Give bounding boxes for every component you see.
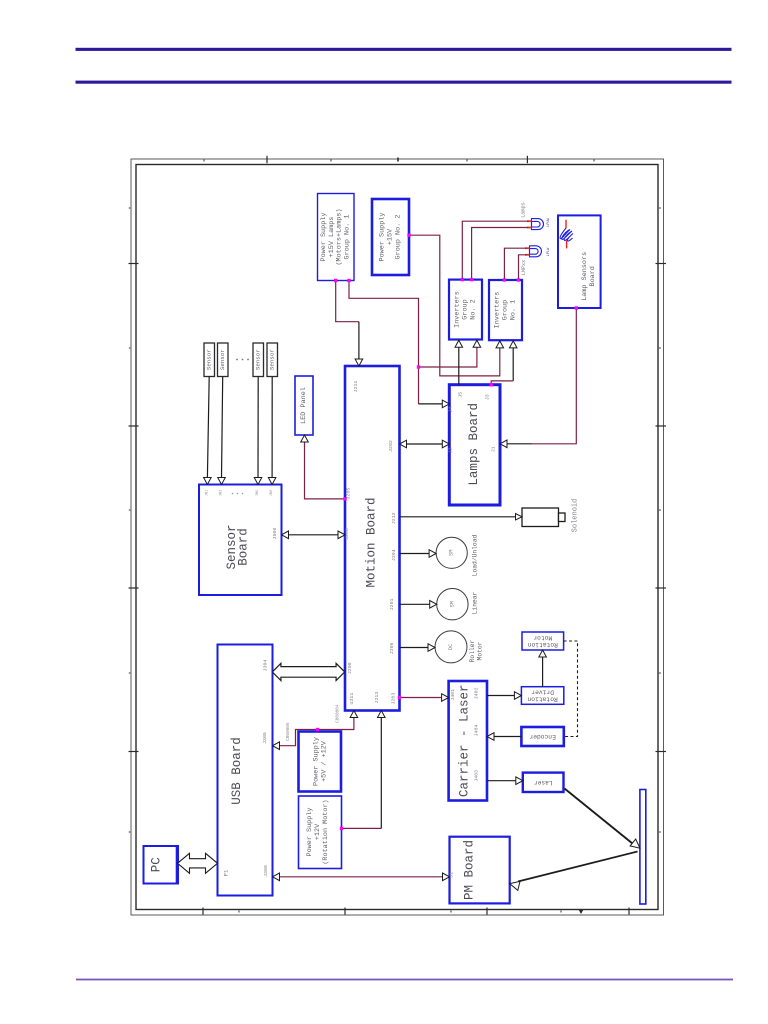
- svg-text:Board: Board: [236, 528, 250, 566]
- drawing frame inner border: [136, 165, 658, 910]
- svg-text:Inverters: Inverters: [494, 292, 502, 329]
- svg-text:Driver: Driver: [531, 688, 554, 695]
- svg-text:J203: J203: [391, 693, 397, 705]
- svg-text:JN6: JN6: [270, 489, 274, 497]
- motor DC roller: [435, 631, 467, 663]
- laser box: [523, 773, 564, 792]
- svg-text:J5: J5: [457, 392, 463, 398]
- svg-text:(Rotation Motor): (Rotation Motor): [322, 799, 330, 864]
- svg-text:Board: Board: [589, 266, 597, 286]
- svg-text:SM: SM: [449, 601, 455, 607]
- svg-text:Sensor: Sensor: [269, 349, 276, 370]
- wire inverter g2 to lamps J5: [458, 347, 460, 385]
- PM Board: [450, 837, 510, 904]
- svg-text:No. 2: No. 2: [469, 299, 477, 319]
- svg-text:LPUW: LPUW: [547, 217, 551, 226]
- svg-text:Encoder: Encoder: [529, 733, 556, 740]
- power supply +12V rotation motor: [299, 796, 342, 869]
- wire motion J202 to lamps J2 (double arrow): [404, 443, 445, 445]
- sensor wires into sensor board: [207, 377, 209, 479]
- wire motion J203 to carrier J401: [400, 697, 443, 699]
- svg-text:+15V: +15V: [387, 228, 395, 245]
- svg-text:J300: J300: [263, 865, 269, 877]
- PC box: [144, 846, 179, 884]
- svg-text:J208: J208: [344, 528, 350, 540]
- wire rotation driver to rotation motor: [542, 657, 544, 687]
- mirror: [640, 790, 646, 905]
- wire PS1 to inverters g2 / lamps J4: [349, 281, 419, 368]
- laser beam to mirror: [565, 789, 635, 845]
- svg-text:Linear: Linear: [471, 591, 478, 614]
- svg-text:JN5: JN5: [256, 489, 260, 497]
- svg-text:No. 1: No. 1: [509, 300, 517, 320]
- svg-text:Group: Group: [462, 299, 470, 319]
- wires inverter g1 to lower lamp: [504, 248, 526, 280]
- svg-text:J305: J305: [262, 732, 268, 744]
- wire motion J204 to SM motor: [400, 553, 431, 555]
- wires inverter g2 to upper lamp: [462, 221, 528, 279]
- wire sensor board J500 to motion J208 (double arrow): [286, 534, 341, 536]
- wire PS2 to inverters g1: [409, 235, 500, 376]
- lamp sensor symbol: [565, 220, 567, 228]
- svg-text:PM Board: PM Board: [463, 840, 477, 900]
- svg-text:Laser: Laser: [534, 779, 553, 786]
- wire USB J305 to +5/+12 supply and motion U211: [279, 717, 354, 746]
- svg-text:J201: J201: [389, 598, 395, 610]
- lamp LPLW lower: [530, 246, 542, 257]
- title rule 2 (top): [76, 81, 732, 84]
- svg-text:+5V / +12V: +5V / +12V: [320, 740, 328, 782]
- inverters group1: [489, 280, 522, 340]
- svg-text:LPLW: LPLW: [547, 247, 551, 256]
- svg-text:Power Supply: Power Supply: [306, 808, 314, 857]
- svg-text:J213: J213: [374, 692, 380, 704]
- svg-text:J212: J212: [391, 512, 397, 524]
- inverters group2: [449, 280, 482, 340]
- rotation driver box: [521, 687, 563, 705]
- svg-text:+12V: +12V: [314, 823, 322, 840]
- svg-text:Power Supply: Power Supply: [379, 213, 387, 262]
- svg-text:Motion Board: Motion Board: [364, 497, 378, 587]
- Motion Board: [345, 366, 400, 711]
- svg-text:Group No. 2: Group No. 2: [394, 215, 402, 260]
- svg-text:J204: J204: [391, 549, 397, 561]
- svg-text:LMPxx: LMPxx: [521, 260, 527, 276]
- svg-text:J206: J206: [389, 642, 395, 654]
- frame zone ticks: [266, 156, 268, 163]
- svg-text:J500: J500: [272, 528, 278, 540]
- svg-text:(Motors+Lamps): (Motors+Lamps): [336, 208, 344, 265]
- svg-text:J4: J4: [448, 407, 454, 413]
- svg-text:J404: J404: [473, 725, 479, 737]
- wire +12V rotation supply to motion J213: [342, 827, 382, 829]
- wire carrier J402 to rotation driver: [487, 695, 515, 697]
- svg-text:Sensor: Sensor: [255, 349, 262, 370]
- svg-text:JN1: JN1: [206, 489, 210, 497]
- encoder box: [521, 727, 563, 746]
- svg-text:CB00004: CB00004: [336, 704, 341, 723]
- svg-text:J200: J200: [347, 662, 353, 674]
- svg-text:P1: P1: [223, 869, 230, 876]
- Sensor Board: [199, 485, 282, 596]
- svg-text:Lamps Board: Lamps Board: [467, 403, 481, 486]
- power supply +5V/+12V: [299, 732, 342, 792]
- svg-text:Motor: Motor: [533, 634, 552, 641]
- wire motion J206 to DC motor: [400, 647, 430, 649]
- svg-text:CB00006: CB00006: [286, 722, 291, 741]
- svg-text:J1: J1: [490, 446, 496, 452]
- svg-text:Roller: Roller: [469, 639, 476, 662]
- power supply PS1 (+15V lamps group1): [318, 194, 355, 281]
- power supply PS2 (+15V group2): [372, 199, 409, 275]
- svg-text:PC: PC: [150, 857, 164, 872]
- wire motion J212 to solenoid: [400, 516, 517, 518]
- svg-text:U211: U211: [349, 693, 355, 705]
- LED Panel: [295, 376, 313, 435]
- title rule 1 (top): [76, 48, 732, 51]
- svg-text:Load/Unload: Load/Unload: [471, 535, 478, 577]
- Lamps Board: [449, 385, 500, 505]
- big double arrow USB J304 - motion J200: [272, 663, 344, 680]
- svg-text:Rotation: Rotation: [527, 696, 557, 703]
- double arrow PC - USB P1: [178, 853, 218, 873]
- svg-text:Sensor: Sensor: [206, 349, 213, 370]
- wire USB J300 to PM board J1: [279, 876, 444, 878]
- dashed feedback rotation motor - encoder: [564, 641, 578, 737]
- motor SM linear: [437, 589, 468, 620]
- lamp sensors board: [558, 215, 601, 308]
- svg-text:J304: J304: [263, 660, 269, 672]
- solenoid: [522, 508, 559, 527]
- lamp LPUW upper: [532, 219, 544, 230]
- drawing frame outer border: [131, 159, 664, 915]
- svg-text:Inverters: Inverters: [454, 291, 462, 328]
- svg-text:J3: J3: [485, 394, 491, 400]
- svg-text:Power Supply: Power Supply: [313, 737, 321, 786]
- Carrier - Laser: [449, 681, 487, 801]
- svg-text:Group No. 1: Group No. 1: [344, 215, 352, 260]
- wire PS1 to motion J211: [336, 281, 359, 322]
- svg-text:Rotation: Rotation: [527, 641, 557, 648]
- motor SM load/unload: [436, 537, 467, 568]
- svg-text:Carrier - Laser: Carrier - Laser: [458, 684, 472, 797]
- wire motion J201 to SM motor: [400, 603, 431, 605]
- wire encoder to carrier J404: [493, 736, 521, 738]
- svg-text:Lamp Sensors: Lamp Sensors: [581, 252, 589, 301]
- svg-text:Lamps: Lamps: [521, 202, 527, 218]
- wire inverter g1 to lamps J3: [512, 347, 514, 381]
- svg-text:LED Panel: LED Panel: [300, 387, 308, 424]
- svg-text:USB Board: USB Board: [230, 737, 244, 805]
- svg-text:Power Supply: Power Supply: [320, 213, 328, 262]
- USB Board: [218, 645, 273, 896]
- svg-text:+15V Lamps: +15V Lamps: [328, 217, 336, 258]
- svg-text:J211: J211: [353, 381, 359, 393]
- svg-text:J202: J202: [388, 440, 394, 452]
- wire carrier J403 to laser box: [487, 780, 517, 782]
- beam mirror to PM board: [518, 852, 638, 882]
- footer rule (bottom): [76, 979, 733, 981]
- svg-text:Sensor: Sensor: [219, 349, 226, 370]
- sensor input boxes: [204, 343, 215, 377]
- svg-text:Solenoid: Solenoid: [572, 499, 580, 533]
- svg-text:DC: DC: [448, 644, 454, 650]
- svg-text:J401: J401: [450, 689, 456, 701]
- svg-text:Motor: Motor: [476, 641, 483, 660]
- wire lamp sensors board to lamps J1: [532, 308, 577, 444]
- svg-text:SM: SM: [449, 550, 455, 556]
- svg-text:JN2: JN2: [220, 489, 224, 497]
- svg-text:J403: J403: [473, 770, 479, 782]
- svg-text:J402: J402: [473, 687, 479, 699]
- rotation motor box: [522, 632, 564, 650]
- svg-text:J2: J2: [448, 447, 454, 453]
- svg-text:Group: Group: [502, 300, 510, 320]
- wire motion J205 to LED panel: [305, 441, 346, 499]
